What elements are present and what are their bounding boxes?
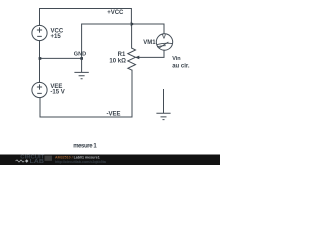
svg-text:Vin: Vin (172, 56, 181, 62)
ground symbol (free, right) (156, 89, 170, 120)
svg-text:+15: +15 (51, 34, 62, 40)
voltmeter VM1 (156, 34, 172, 50)
svg-text:R1: R1 (118, 52, 126, 58)
svg-text:-VEE: -VEE (106, 112, 120, 118)
wire junction to voltmeter top (131, 24, 164, 34)
node junction dot A (left rail / GND) (39, 57, 42, 60)
svg-text:LAB: LAB (30, 159, 45, 165)
svg-text:10 kΩ: 10 kΩ (109, 58, 126, 64)
svg-text:GND: GND (74, 51, 86, 57)
wire GND riser up and right (82, 24, 132, 58)
svg-text:-15 V: -15 V (50, 90, 64, 96)
svg-text:+VCC: +VCC (107, 10, 124, 16)
svg-text:http://circuitlab.com/c2qkb5ta: http://circuitlab.com/c2qkb5ta (55, 160, 107, 164)
svg-text:V: V (162, 35, 166, 41)
svg-text:au cir.: au cir. (172, 63, 190, 69)
node junction dot B (GND wire end) (80, 57, 83, 60)
svg-text:mesure 1: mesure 1 (73, 144, 97, 150)
wiper arrow R1 (135, 56, 139, 60)
svg-text:AM32510 / Lab01 mesure1: AM32510 / Lab01 mesure1 (55, 155, 100, 159)
footer badge (45, 156, 53, 161)
wire bottom rail -VEE (40, 70, 132, 117)
wire top rail +VCC (40, 9, 132, 26)
voltage source VEE (32, 82, 47, 97)
voltage source VCC (32, 25, 47, 40)
wire junction down to pot top (131, 24, 133, 48)
footer logo diamond (25, 159, 28, 163)
potentiometer R1 10k (128, 48, 136, 70)
footer bar (0, 155, 220, 166)
wire wiper to voltmeter bottom (139, 50, 164, 57)
svg-text:VM1: VM1 (143, 40, 156, 46)
wire left rail VCC to VEE (39, 41, 41, 83)
node junction diamond C (+VCC net) (131, 22, 135, 27)
footer logo zigzag (16, 160, 25, 162)
ground symbol (GND) (74, 58, 88, 78)
wire GND horizontal (40, 57, 82, 59)
